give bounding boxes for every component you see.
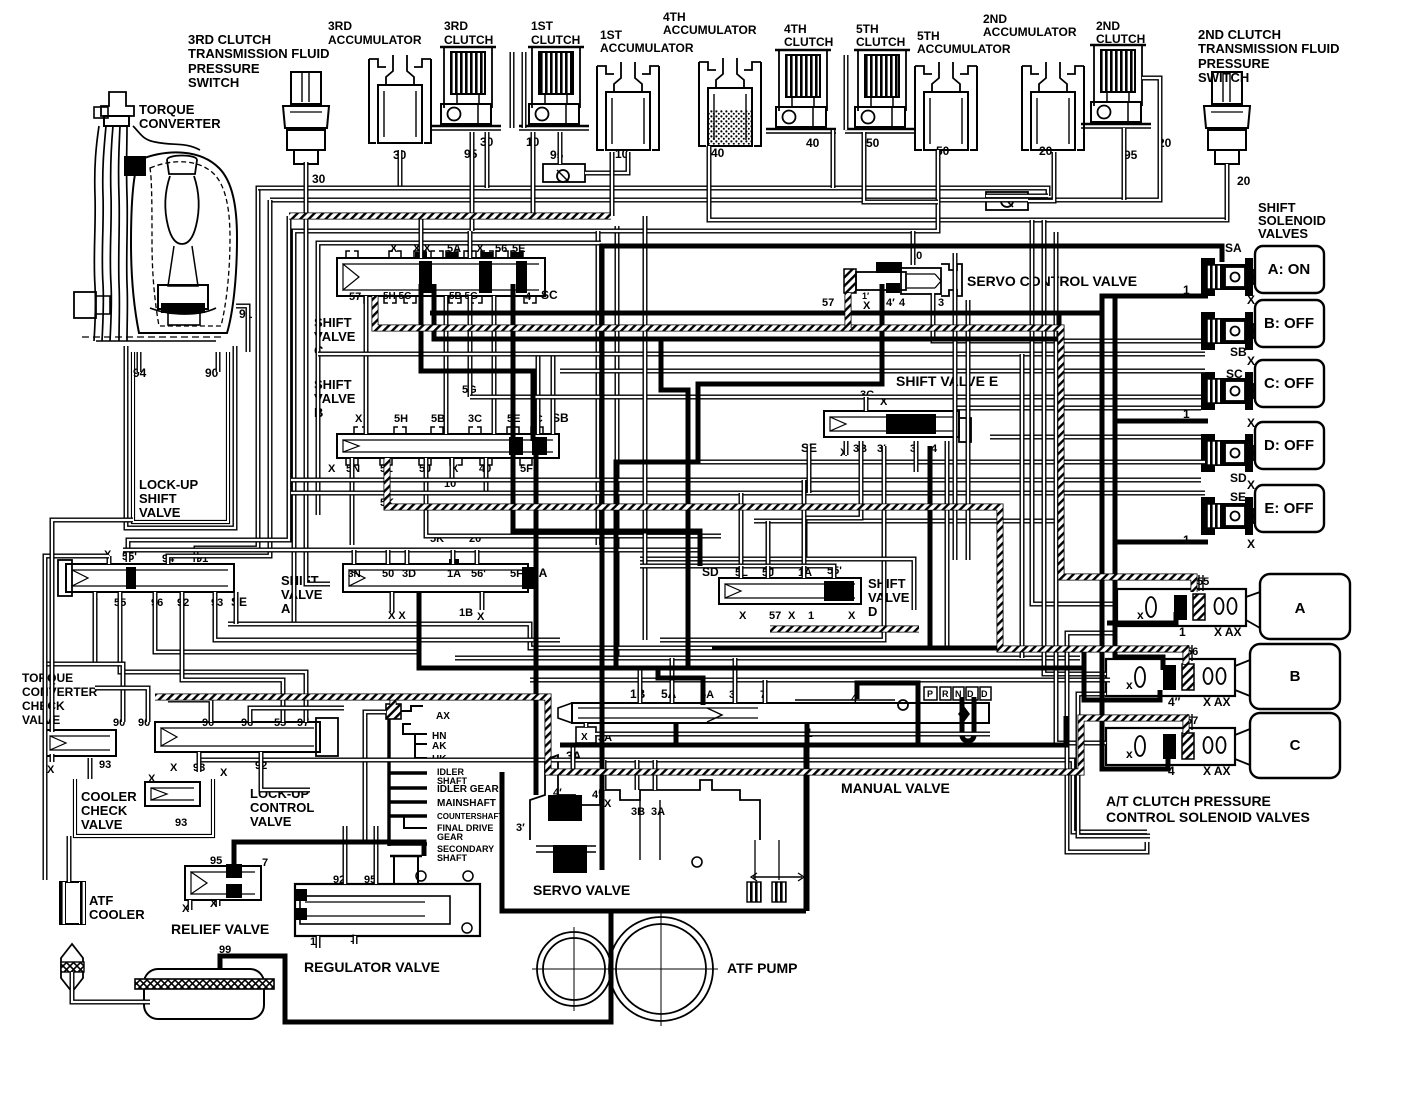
svg-text:A: A <box>1295 600 1306 617</box>
svg-text:3RD: 3RD <box>444 19 468 33</box>
svg-text:x: x <box>1137 608 1144 622</box>
wire wire valve E X stub <box>844 441 849 455</box>
wire bus x645 <box>643 216 648 640</box>
wire wire 5H drop <box>364 296 369 434</box>
svg-text:CONTROL SOLENOID VALVES: CONTROL SOLENOID VALVES <box>1106 809 1310 825</box>
heavy relief feed <box>234 842 424 868</box>
wire servo 3A riser <box>653 760 658 790</box>
wire valve A left risers <box>107 556 112 564</box>
wire servo 4s riser <box>602 760 607 790</box>
svg-text:3B: 3B <box>631 806 645 818</box>
wire bus y408 <box>955 406 1201 411</box>
wire valve D riser 5J up <box>766 521 771 566</box>
svg-text:5B 5G: 5B 5G <box>449 291 478 302</box>
svg-text:P: P <box>927 689 933 699</box>
svg-text:B: OFF: B: OFF <box>1264 315 1314 332</box>
clutch pressure control solenoid C <box>1106 714 1235 778</box>
wire wire valve C riser 1 <box>419 216 424 258</box>
wire manual 3A stub <box>584 723 589 727</box>
wire wire LC 96 riser <box>250 708 344 722</box>
svg-text:SC: SC <box>541 288 558 302</box>
wire lock-up box outer <box>126 346 235 528</box>
svg-text:ATF: ATF <box>89 893 113 908</box>
wire wire 5B drop <box>444 296 449 434</box>
wire manual 5A riser <box>670 658 675 703</box>
heavy valve A 1B <box>419 592 703 705</box>
svg-text:50: 50 <box>382 568 394 580</box>
wire lockup box drop <box>52 520 133 732</box>
svg-text:x: x <box>1126 678 1133 692</box>
wire wire 3rd clutch 95 <box>470 132 475 231</box>
wire bus y216 left <box>128 216 289 562</box>
shift solenoid valve D sol <box>1201 422 1324 472</box>
svg-text:X: X <box>477 611 485 623</box>
wire wire 2nd accum check to bus <box>986 194 1048 199</box>
wire wire SB drop <box>551 356 556 434</box>
svg-text:X AX: X AX <box>1214 625 1242 639</box>
valve C top ports <box>346 251 523 258</box>
svg-text:R: R <box>942 689 949 699</box>
wire wire A92 drop <box>182 592 283 722</box>
heavy valve E drop <box>928 446 933 648</box>
wire wire valve E cap drop <box>945 441 950 648</box>
heavy rail2 <box>1115 296 1163 670</box>
svg-text:5H 5C: 5H 5C <box>383 291 411 302</box>
wire bus y680 <box>530 678 1110 683</box>
svg-text:MANUAL VALVE: MANUAL VALVE <box>841 780 950 796</box>
wire compartment border <box>318 243 601 515</box>
svg-text:3RD CLUTCH: 3RD CLUTCH <box>188 32 271 47</box>
svg-text:SC: SC <box>1226 367 1243 381</box>
svg-text:CHECK: CHECK <box>81 803 128 818</box>
svg-text:X AX: X AX <box>1203 764 1231 778</box>
heavy B module link <box>1102 698 1160 703</box>
svg-text:X AX: X AX <box>1203 695 1231 709</box>
svg-text:SERVO VALVE: SERVO VALVE <box>533 882 630 898</box>
wire module loop 2 <box>1078 694 1150 836</box>
svg-text:CONVERTER: CONVERTER <box>139 116 221 131</box>
valve E end cap <box>959 418 971 442</box>
wire wire 3C valve E riser <box>864 397 869 411</box>
heavy jog to rail2 <box>1102 296 1115 313</box>
2nd accumulator <box>1022 62 1084 150</box>
wire servo control drop <box>911 231 916 265</box>
svg-text:5B: 5B <box>431 413 445 425</box>
wire bus y734 <box>595 732 990 737</box>
wire wire LC 90c riser <box>168 700 211 722</box>
svg-text:SERVO CONTROL VALVE: SERVO CONTROL VALVE <box>967 273 1137 289</box>
heavy servo control 4 drop <box>616 284 882 668</box>
svg-text:A: ON: A: ON <box>1268 261 1311 278</box>
wire valve D top bus <box>640 566 834 578</box>
wire valve D risers b <box>766 566 771 578</box>
heavy SA feed <box>602 246 1222 262</box>
heavy y668 ext <box>658 666 1084 671</box>
wire module feed 3 <box>1056 232 1106 743</box>
wire bus y231 <box>294 150 938 624</box>
wire regulator 92 riser <box>343 826 348 884</box>
wire valve D risers c <box>802 566 807 578</box>
svg-text:ATF PUMP: ATF PUMP <box>727 960 798 976</box>
svg-text:VALVE: VALVE <box>139 505 181 520</box>
shift solenoid valve B <box>1201 300 1324 350</box>
wire wire 91 <box>236 306 248 352</box>
wire bus y188 <box>196 150 400 562</box>
speed sensor pickup wire <box>365 712 386 842</box>
svg-text:5F: 5F <box>510 568 523 580</box>
heavy stub A <box>1115 294 1208 299</box>
svg-text:57: 57 <box>769 610 781 622</box>
heavy regulator out <box>220 911 611 1022</box>
wire wire 10 stub <box>450 458 455 478</box>
wire wire 2nd switch 20 <box>1225 164 1230 220</box>
svg-text:C: OFF: C: OFF <box>1264 375 1314 392</box>
wire valve A box <box>228 624 712 648</box>
wire wire 3B drop <box>805 441 861 560</box>
svg-text:4′: 4′ <box>886 297 895 309</box>
wire hatched valve D <box>770 626 919 633</box>
svg-text:ACCUMULATOR: ACCUMULATOR <box>917 42 1011 56</box>
shift solenoid valve A <box>1201 246 1324 296</box>
svg-text:7: 7 <box>262 857 268 869</box>
wire bus y437 <box>990 435 1201 440</box>
wire bus y220 <box>709 146 1227 220</box>
cooler check valve <box>145 782 200 806</box>
torque converter <box>74 92 237 341</box>
atf filter funnel <box>61 944 84 992</box>
wire wire 5th clutch 50 <box>864 132 938 202</box>
svg-text:CONTROL: CONTROL <box>250 800 314 815</box>
torque converter check valve <box>44 730 116 756</box>
3rd clutch <box>431 47 501 130</box>
wire wire 4th clutch 40 <box>831 130 836 188</box>
wire wire A96 drop <box>155 592 420 652</box>
wire wire A7 drop <box>52 592 95 728</box>
svg-text:D: D <box>868 604 877 619</box>
svg-text:3RD: 3RD <box>328 19 352 33</box>
cooler check valve box <box>75 779 213 836</box>
svg-text:SD: SD <box>1230 471 1247 485</box>
lock-up control valve <box>155 722 320 752</box>
wire bus x598 <box>596 231 601 545</box>
heavy valve C 5A y339 <box>434 284 1059 339</box>
servo control valve <box>844 262 962 296</box>
svg-text:40: 40 <box>806 136 820 150</box>
svg-text:X: X <box>604 798 612 810</box>
shift valve E <box>824 411 959 437</box>
wire valve D riser 5L up <box>739 493 744 566</box>
wire wire check valve to 1st accumulator <box>585 152 628 173</box>
wire hatched servo control 57 <box>845 293 852 328</box>
svg-text:5F: 5F <box>520 463 533 475</box>
2nd pressure switch body <box>1204 72 1250 164</box>
manual valve <box>558 700 989 723</box>
wire hatched lower loop <box>155 697 1186 772</box>
wire bus y200 left <box>168 200 270 564</box>
wire wire 2nd clutch 20 <box>1142 78 1160 152</box>
heavy x602 rail <box>600 246 605 870</box>
wire wire A93 drop <box>215 592 560 640</box>
4th accumulator <box>699 58 761 146</box>
svg-text:5H: 5H <box>394 413 408 425</box>
svg-text:GEAR: GEAR <box>437 832 464 842</box>
wire wire LC 93 drop <box>197 752 202 772</box>
heavy servo box right <box>804 745 809 911</box>
wire wire 1st clutch 95 <box>558 132 563 164</box>
svg-text:93: 93 <box>175 817 187 829</box>
svg-text:CLUTCH: CLUTCH <box>784 35 833 49</box>
svg-text:20: 20 <box>1039 144 1053 158</box>
svg-text:SHIFT VALVE E: SHIFT VALVE E <box>896 373 998 389</box>
svg-text:ACCUMULATOR: ACCUMULATOR <box>600 41 694 55</box>
wire bus x306 <box>306 162 330 584</box>
svg-text:ACCUMULATOR: ACCUMULATOR <box>663 23 757 37</box>
svg-text:93: 93 <box>99 759 111 771</box>
wire wire 94 <box>137 352 142 372</box>
check valve ball 95 <box>543 164 585 182</box>
wire wire SE valve E <box>807 446 812 493</box>
wire cooler riser <box>88 758 93 779</box>
oil strainer <box>135 979 274 989</box>
svg-text:X: X <box>170 762 178 774</box>
wire valve A right risers <box>352 550 357 564</box>
svg-text:ACCUMULATOR: ACCUMULATOR <box>328 33 422 47</box>
heavy y313 rail <box>430 313 1168 769</box>
heavy manual drop 1 <box>805 723 810 911</box>
svg-text:1: 1 <box>808 610 814 622</box>
svg-text:VALVES: VALVES <box>1258 226 1308 241</box>
wire bus y480 <box>291 478 1201 483</box>
svg-text:MAINSHAFT: MAINSHAFT <box>437 798 496 809</box>
svg-text:COOLER: COOLER <box>81 789 137 804</box>
svg-text:X: X <box>1247 416 1255 430</box>
wire wire valve C riser 2 <box>468 231 473 258</box>
wire bus y371 <box>560 369 1205 374</box>
wire hatched valve B 5L to module B <box>387 458 1186 664</box>
3rd accumulator <box>369 55 431 143</box>
valve A right dark tick <box>449 559 459 565</box>
wire bus y462 right <box>698 460 1205 465</box>
wire wire 3rd-1st clutch pipe b <box>522 52 527 128</box>
svg-text:1A: 1A <box>447 568 461 580</box>
wire wire 5N drop <box>350 458 355 545</box>
svg-text:AK: AK <box>432 741 447 752</box>
svg-text:4: 4 <box>899 297 906 309</box>
wire wire 3p drop <box>660 446 884 640</box>
wire valve A top line <box>123 550 700 566</box>
svg-text:2ND CLUTCH: 2ND CLUTCH <box>1198 27 1281 42</box>
wire regulator 95 riser <box>374 826 379 884</box>
svg-text:X: X <box>739 610 747 622</box>
valve C dark top ticks <box>415 252 427 259</box>
svg-text:CLUTCH: CLUTCH <box>531 33 580 47</box>
wire manual 1B riser <box>638 670 643 703</box>
wire bus x617 <box>615 226 620 658</box>
3rd clutch pressure switch body <box>283 72 329 164</box>
valve A left cap <box>58 560 72 596</box>
svg-text:4″: 4″ <box>1168 695 1181 709</box>
wire wire 90 <box>216 352 221 372</box>
wire wire LC 90 riser <box>45 664 123 722</box>
heavy stub C <box>1115 419 1208 424</box>
regulator valve <box>295 856 480 936</box>
svg-text:TORQUE: TORQUE <box>139 102 195 117</box>
svg-text:X: X <box>581 732 588 743</box>
wire bus y354 <box>318 352 1205 357</box>
1st accumulator <box>597 62 659 150</box>
wire valve A right risers e <box>475 550 480 564</box>
wire regulator 1 stub b <box>353 936 358 944</box>
svg-text:X: X <box>1247 354 1255 368</box>
wire valve A right risers b <box>386 550 391 564</box>
svg-text:5TH: 5TH <box>856 22 879 36</box>
valve B top ports <box>354 427 543 434</box>
wire right rail 1c <box>1020 354 1025 658</box>
shift solenoid valve E sol <box>1201 485 1324 535</box>
shift solenoid valve C sol <box>1201 360 1324 410</box>
wire manual 3A drop <box>571 743 576 772</box>
svg-text:1B: 1B <box>459 607 473 619</box>
wire module feed 1 <box>1032 220 1117 604</box>
servo valve <box>530 755 804 902</box>
svg-text:40: 40 <box>711 146 725 160</box>
wire wire 1st accumulator 10 <box>610 152 615 216</box>
wire wire 3 drop <box>914 441 919 472</box>
svg-text:57: 57 <box>349 291 361 303</box>
svg-text:COUNTERSHAFT: COUNTERSHAFT <box>437 812 503 821</box>
svg-text:B: B <box>1290 668 1301 685</box>
wire wire 3rd clutch 30 <box>485 132 490 188</box>
wire wire LC 92 drop <box>261 752 310 790</box>
svg-text:SHIFT: SHIFT <box>868 576 906 591</box>
atf pump <box>537 932 611 1006</box>
wire bus y493 <box>291 491 1205 496</box>
wire servo 3B riser <box>635 760 640 790</box>
5th accumulator <box>915 62 977 150</box>
lock-up control valve small piston <box>316 718 338 756</box>
wire wire servo control 3 drop <box>933 293 1201 341</box>
shift valve D <box>719 578 861 604</box>
shift valve C <box>337 258 545 296</box>
solenoid B outlet box <box>1250 644 1340 709</box>
heavy valve C SC drop <box>513 284 700 566</box>
shift valve A left <box>66 564 234 592</box>
svg-text:SB: SB <box>1230 345 1247 359</box>
svg-text:2ND: 2ND <box>983 12 1007 26</box>
svg-text:1: 1 <box>1179 625 1186 639</box>
valve B bottom ports <box>346 458 532 465</box>
svg-text:4TH: 4TH <box>784 22 807 36</box>
wire wire 2nd clutch 95 <box>1122 128 1127 200</box>
wire cooler pipe down <box>72 972 150 1002</box>
wire wire LC 90b riser <box>95 688 148 722</box>
wire wire 2nd accumulator 20 <box>1028 152 1054 201</box>
svg-text:X: X <box>220 767 228 779</box>
wire wire 4th-5th clutch pipe <box>844 55 849 130</box>
relief valve body <box>185 866 261 900</box>
svg-text:VALVE: VALVE <box>250 814 292 829</box>
svg-text:1ST: 1ST <box>531 19 554 33</box>
heavy y339 branch x688 <box>661 339 688 668</box>
svg-text:SWITCH: SWITCH <box>188 75 239 90</box>
wire wire 5C drop <box>536 356 541 434</box>
svg-text:X: X <box>328 463 336 475</box>
shift valve B <box>337 434 559 458</box>
svg-text:CONVERTER: CONVERTER <box>22 685 98 699</box>
svg-text:ACCUMULATOR: ACCUMULATOR <box>983 25 1077 39</box>
svg-text:1: 1 <box>310 936 316 948</box>
heavy manual 4 link <box>857 683 918 745</box>
wire hatched C57 to module A <box>375 296 1194 592</box>
svg-text:SE: SE <box>1230 490 1246 504</box>
wire right rail 1 <box>953 253 958 560</box>
lock-up shift valve box <box>133 352 228 522</box>
svg-text:3′: 3′ <box>516 822 525 834</box>
speed sensor legend <box>386 704 427 846</box>
svg-text:TRANSMISSION FLUID: TRANSMISSION FLUID <box>1198 41 1340 56</box>
wire manual 7 riser <box>763 680 768 703</box>
svg-text:3N: 3N <box>348 569 361 580</box>
svg-text:X: X <box>355 413 363 425</box>
svg-text:TORQUE: TORQUE <box>22 671 73 685</box>
wire hatched sensor stub <box>390 698 397 705</box>
svg-text:TRANSMISSION FLUID: TRANSMISSION FLUID <box>188 46 330 61</box>
wire valve D risers <box>739 566 744 578</box>
wire bus y521 <box>754 519 1060 524</box>
oil pan <box>144 969 264 1019</box>
svg-text:50: 50 <box>866 136 880 150</box>
svg-text:X: X <box>148 773 156 785</box>
svg-text:VALVE: VALVE <box>281 587 323 602</box>
manual valve 3A port <box>576 727 596 743</box>
svg-text:IDLER GEAR: IDLER GEAR <box>437 784 499 795</box>
wire relief X stub b <box>216 900 221 906</box>
svg-text:E: OFF: E: OFF <box>1264 500 1313 517</box>
heavy A module feed <box>1107 612 1176 623</box>
svg-text:30: 30 <box>312 172 326 186</box>
wire wire ASE drop <box>234 592 239 624</box>
svg-text:CLUTCH: CLUTCH <box>856 35 905 49</box>
wire bus y188 right <box>258 188 1048 196</box>
svg-text:AX: AX <box>436 711 450 722</box>
svg-text:RELIEF VALVE: RELIEF VALVE <box>171 921 269 937</box>
svg-text:SE: SE <box>231 595 247 609</box>
wire relief X stub <box>188 900 193 910</box>
5th clutch <box>845 50 915 133</box>
svg-text:X: X <box>47 764 55 776</box>
svg-text:SHIFT: SHIFT <box>139 491 177 506</box>
svg-text:X: X <box>1247 537 1255 551</box>
wire valve A right X stub <box>390 592 395 612</box>
svg-text:20: 20 <box>1237 174 1251 188</box>
wire left rail <box>45 556 109 880</box>
wire module feed 2 <box>1044 220 1106 674</box>
svg-text:A/T CLUTCH PRESSURE: A/T CLUTCH PRESSURE <box>1106 793 1271 809</box>
svg-text:4′: 4′ <box>553 787 562 799</box>
wire wire A55 drop <box>120 592 306 722</box>
svg-text:3D: 3D <box>402 568 416 580</box>
wire bus y397 5G <box>470 395 1201 400</box>
clutch pressure control solenoid A <box>1117 575 1246 639</box>
svg-text:CLUTCH: CLUTCH <box>444 33 493 47</box>
heavy stub E <box>1115 540 1208 545</box>
svg-text:x: x <box>1126 747 1133 761</box>
solenoid A outlet box <box>1260 574 1350 639</box>
wire valve A right X stub b <box>480 592 485 610</box>
heavy 5F servo feed <box>534 453 539 795</box>
svg-text:SHAFT: SHAFT <box>437 853 467 863</box>
shift valve A right <box>343 564 536 592</box>
